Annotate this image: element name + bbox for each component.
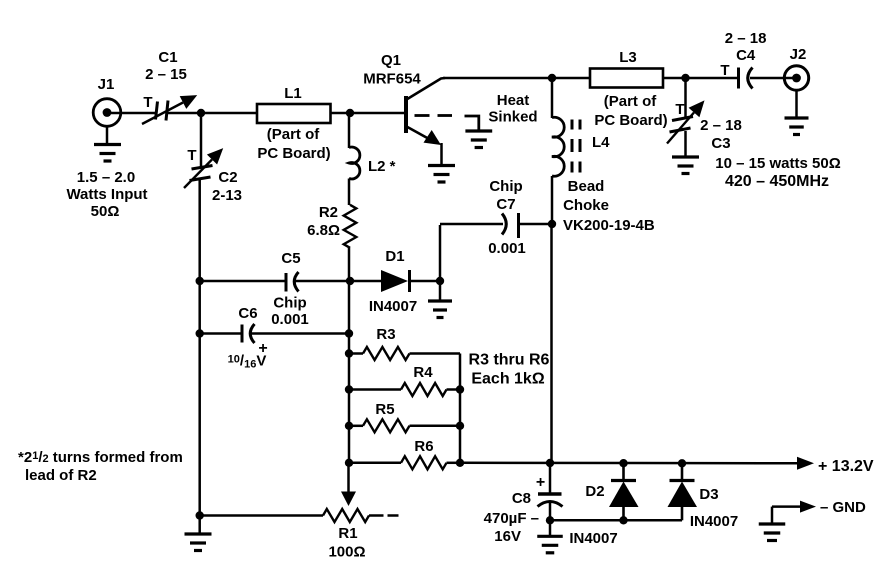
ground (J2)	[785, 90, 809, 135]
svg-text:J2: J2	[790, 46, 807, 63]
resistor R2	[344, 205, 357, 248]
wire R1 right lead	[369, 514, 399, 517]
inductor L2	[349, 147, 360, 179]
wire L3 to C3 junction	[663, 77, 686, 80]
note L2 turns	[18, 449, 183, 484]
svg-text:R5: R5	[375, 401, 394, 418]
wire base junction to Q1	[350, 112, 406, 115]
svg-text:L1: L1	[284, 85, 302, 102]
svg-text:(Part of: (Part of	[267, 126, 321, 143]
diode D1	[381, 270, 410, 292]
svg-text:D1: D1	[385, 248, 404, 265]
label L3 note	[594, 93, 667, 129]
label C5 value	[271, 295, 309, 329]
label L4	[592, 134, 610, 151]
node A (C1/L1/C2 junction)	[197, 109, 205, 117]
node B (L1/L2/Q1 base)	[346, 109, 354, 117]
heat sink bracket	[465, 116, 479, 131]
resistor R5	[349, 419, 460, 432]
label R3-R6 note	[469, 352, 550, 388]
wire Q1 collector to L4 rail	[443, 77, 552, 80]
label C6	[238, 305, 257, 322]
svg-text:L2 *: L2 *	[368, 158, 396, 175]
capacitor C8	[538, 494, 563, 507]
svg-text:Heat: Heat	[497, 92, 530, 109]
power +13.2V arrow	[797, 457, 814, 470]
wire junction down to C2	[200, 111, 203, 167]
wire left rail (C2 to bottom)	[198, 179, 201, 517]
svg-text:100Ω: 100Ω	[328, 544, 365, 561]
wire L4 rail to supply rail	[550, 224, 552, 463]
label L1 note	[257, 126, 330, 162]
svg-text:Choke: Choke	[563, 197, 609, 214]
label R3	[376, 326, 395, 343]
svg-text:IN4007: IN4007	[369, 298, 417, 315]
svg-text:R1: R1	[338, 525, 357, 542]
label C8 value	[484, 510, 539, 545]
svg-text:Watts Input: Watts Input	[66, 186, 147, 203]
label R5	[375, 401, 394, 418]
svg-text:R6: R6	[414, 438, 433, 455]
label C5	[281, 250, 300, 267]
svg-text:IN4007: IN4007	[569, 530, 617, 547]
capacitor C4	[739, 68, 753, 89]
wire L2 to R2	[348, 179, 351, 206]
svg-text:Chip: Chip	[489, 178, 522, 195]
svg-text:2 – 15: 2 – 15	[145, 66, 187, 83]
wire GND terminal	[772, 501, 816, 513]
wire node C to L3	[552, 77, 590, 80]
wire R2 to D1 node	[348, 248, 351, 282]
resistor R3	[349, 347, 460, 360]
node F (left rail / C5)	[196, 277, 204, 285]
svg-text:Chip: Chip	[273, 295, 306, 312]
node C (collector/L3/L4)	[548, 74, 556, 82]
inductor L1	[257, 104, 331, 123]
label C7	[488, 178, 526, 257]
label J2	[790, 46, 807, 63]
label C6 value	[228, 353, 267, 371]
ground (bottom left)	[185, 516, 212, 551]
label C2	[212, 169, 242, 204]
svg-text:+: +	[536, 474, 545, 491]
svg-text:D2: D2	[585, 483, 604, 500]
wire diode return	[550, 519, 682, 522]
svg-text:(Part of: (Part of	[604, 93, 658, 110]
node S (C8 top)	[546, 459, 554, 467]
svg-text:C5: C5	[281, 250, 300, 267]
svg-text:50Ω: 50Ω	[91, 203, 120, 220]
resistor R1	[323, 509, 369, 522]
svg-text:16V: 16V	[494, 528, 521, 545]
wire C5 right	[295, 280, 350, 283]
svg-text:C8: C8	[512, 490, 531, 507]
ground (C3)	[672, 157, 699, 174]
wire supply rail	[460, 462, 797, 465]
node N (R6 left)	[345, 459, 353, 467]
label +13.2V	[818, 458, 874, 475]
svg-text:Each 1kΩ: Each 1kΩ	[471, 371, 544, 388]
capacitor C1 (trimmer)	[142, 95, 197, 124]
svg-text:C1: C1	[158, 49, 177, 66]
svg-text:+ 13.2V: + 13.2V	[818, 458, 874, 475]
svg-text:Q1: Q1	[381, 52, 401, 69]
node L (R4 left)	[345, 385, 353, 393]
bead marks	[572, 120, 580, 173]
ground (C8)	[537, 520, 563, 553]
label R4	[413, 364, 433, 381]
svg-text:R3 thru R6: R3 thru R6	[469, 352, 550, 369]
node U (D2 top)	[619, 459, 627, 467]
svg-text:Sinked: Sinked	[488, 109, 537, 126]
svg-text:J1: J1	[98, 76, 115, 93]
svg-text:*21/2 turns formed from: *21/2 turns formed from	[18, 449, 183, 466]
wire ladder left rail	[348, 281, 351, 463]
node G (R2/C5/D1)	[346, 277, 354, 285]
label C6 plus	[258, 340, 267, 357]
node J (ladder rail / C6)	[345, 329, 353, 337]
svg-text:T: T	[675, 101, 684, 118]
label Heat Sinked	[488, 92, 537, 126]
wire C4 to J2	[750, 77, 797, 80]
wire D1 anode	[350, 280, 381, 283]
label T (C4)	[720, 62, 729, 79]
capacitor C3 (trimmer)	[667, 100, 705, 143]
svg-text:T: T	[187, 147, 196, 164]
label D3 part	[690, 513, 738, 530]
svg-text:2 – 18: 2 – 18	[700, 117, 742, 134]
label R6	[414, 438, 433, 455]
wire emitter to ground	[440, 143, 443, 166]
wire node B to L2	[348, 113, 351, 148]
node D (L3/C3/C4)	[681, 74, 689, 82]
node P (R5 right)	[456, 422, 464, 430]
label T (C2)	[187, 147, 196, 164]
svg-text:R3: R3	[376, 326, 395, 343]
svg-text:1.5 – 2.0: 1.5 – 2.0	[77, 169, 135, 186]
label D2	[585, 483, 604, 500]
label D2 part	[569, 530, 617, 547]
ground (J1)	[94, 125, 121, 161]
svg-text:470µF –: 470µF –	[484, 510, 539, 527]
inductor L4 (bead choke)	[552, 117, 564, 176]
svg-text:VK200-19-4B: VK200-19-4B	[563, 217, 655, 234]
wire L1 to base junction	[331, 112, 351, 115]
svg-text:R2: R2	[319, 204, 338, 221]
wire C6 left	[200, 332, 242, 335]
ground (Q1 emitter)	[428, 166, 455, 183]
label -GND	[820, 499, 866, 516]
heat sink dashed line	[415, 114, 453, 117]
svg-text:C2: C2	[218, 169, 237, 186]
svg-text:L4: L4	[592, 134, 610, 151]
svg-text:lead of R2: lead of R2	[25, 467, 97, 484]
svg-text:R4: R4	[413, 364, 433, 381]
node T2 (C8 bottom)	[546, 516, 554, 524]
svg-text:0.001: 0.001	[488, 240, 526, 257]
svg-text:PC Board): PC Board)	[257, 145, 330, 162]
wire C8 bottom	[549, 503, 552, 520]
ground (heat sink)	[465, 131, 492, 148]
svg-text:IN4007: IN4007	[690, 513, 738, 530]
svg-text:C4: C4	[736, 47, 756, 64]
wire C6 right	[251, 332, 349, 335]
label input spec	[66, 169, 147, 220]
svg-text:L3: L3	[619, 49, 637, 66]
svg-text:6.8Ω: 6.8Ω	[307, 222, 340, 239]
inductor L3	[590, 69, 663, 88]
wire bottom left	[200, 514, 323, 517]
label J1	[98, 76, 115, 93]
svg-text:T: T	[143, 94, 152, 111]
label T (C3)	[675, 101, 684, 118]
wire J1 to C1	[107, 112, 156, 115]
label D1	[385, 248, 404, 265]
svg-text:420 – 450MHz: 420 – 450MHz	[725, 173, 829, 190]
wire D1 cathode	[410, 280, 441, 283]
node E (L4/C7 junction)	[548, 220, 556, 228]
label L1	[284, 85, 302, 102]
wire node D to C4	[686, 77, 739, 80]
wire node H to ground	[439, 281, 442, 301]
svg-text:Bead: Bead	[568, 178, 605, 195]
label C8 plus	[536, 474, 545, 491]
label R2	[307, 204, 340, 239]
wire L4 to C7 node	[551, 176, 554, 224]
wire R1 wiper	[341, 463, 356, 506]
diode D2	[609, 463, 639, 520]
label C4	[725, 30, 767, 64]
wire ladder right rail	[459, 354, 462, 463]
connector J2	[784, 66, 808, 90]
wire C8 top	[549, 463, 552, 494]
label T (C1)	[143, 94, 152, 111]
transistor Q1 emitter	[407, 127, 442, 146]
capacitor C5	[286, 272, 299, 292]
capacitor C2 (trimmer)	[184, 148, 223, 188]
label L2	[368, 158, 396, 175]
capacitor C7	[502, 213, 519, 238]
node I (left rail / C6)	[196, 329, 204, 337]
wire C7 right	[520, 223, 552, 226]
resistor R4	[349, 383, 460, 396]
svg-text:C6: C6	[238, 305, 257, 322]
diode D3	[668, 463, 698, 520]
node W (D3 top)	[678, 459, 686, 467]
svg-text:0.001: 0.001	[271, 311, 309, 328]
transistor Q1 collector	[407, 78, 446, 100]
node O (R4 right)	[456, 385, 464, 393]
label D1 part	[369, 298, 417, 315]
node M (R5 left)	[345, 422, 353, 430]
svg-text:– GND: – GND	[820, 499, 866, 516]
wire C7 left	[440, 224, 503, 282]
svg-text:T: T	[720, 62, 729, 79]
label L3	[619, 49, 637, 66]
label R1	[328, 525, 365, 561]
label Q1	[363, 52, 421, 88]
capacitor C6	[242, 324, 255, 343]
node Q (R6 right)	[456, 459, 464, 467]
label C3	[700, 117, 742, 152]
label C1	[145, 49, 187, 83]
ground (D1)	[428, 301, 452, 318]
svg-text:MRF654: MRF654	[363, 71, 421, 88]
label bead choke	[563, 178, 655, 234]
svg-text:10 – 15 watts 50Ω: 10 – 15 watts 50Ω	[715, 155, 840, 172]
transistor Q1 base bar	[404, 96, 408, 133]
label C8	[512, 490, 531, 507]
svg-text:10/16V: 10/16V	[228, 353, 267, 371]
wire node C to L4	[551, 78, 554, 118]
wire C3 to ground	[684, 131, 687, 157]
label output spec	[715, 155, 840, 190]
node V (D2 bottom)	[619, 516, 627, 524]
node K (R3 left)	[345, 349, 353, 357]
wire C1 junction to L1	[167, 112, 258, 115]
svg-text:2 – 18: 2 – 18	[725, 30, 767, 47]
label D3	[699, 486, 718, 503]
node H (D1/C7/ground)	[436, 277, 444, 285]
node R (bottom left rail)	[196, 511, 204, 519]
svg-text:D3: D3	[699, 486, 718, 503]
wire C5 left	[200, 280, 286, 283]
svg-text:C3: C3	[711, 135, 730, 152]
wire node D to C3	[684, 78, 687, 118]
ground (GND terminal)	[759, 507, 786, 541]
svg-text:C7: C7	[496, 196, 515, 213]
svg-text:PC Board): PC Board)	[594, 112, 667, 129]
connector J1	[93, 99, 121, 127]
resistor R6	[349, 456, 460, 469]
svg-text:2-13: 2-13	[212, 187, 242, 204]
